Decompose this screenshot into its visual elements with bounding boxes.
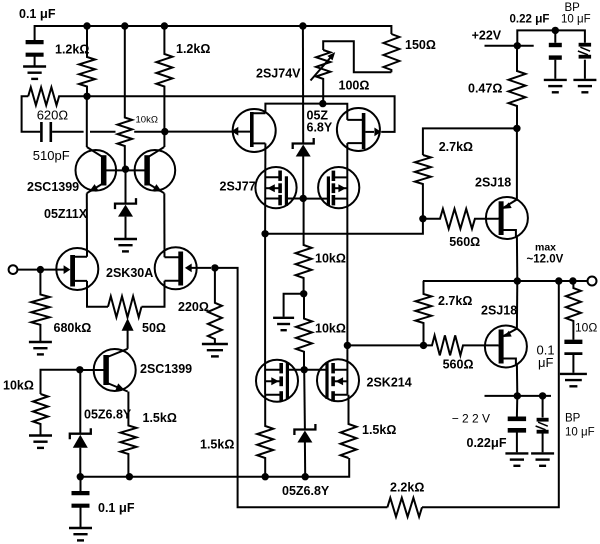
junction rail-R2 [161,22,168,29]
svg-text:10 μF: 10 μF [565,426,595,438]
wire rail to zener top [302,26,304,144]
label 2.7k upper [439,140,473,154]
junction rail-R1 [83,22,90,29]
wire zener to ground [125,217,127,238]
ground zobel [560,374,587,386]
label BP lower [565,412,581,424]
svg-text:10kΩ: 10kΩ [136,114,158,125]
svg-text:05Z11X: 05Z11X [44,207,88,221]
label 510pF [33,148,70,163]
label 05Z top line2 [307,121,333,135]
wire right emitter to JFET drain [163,193,165,257]
svg-text:1.5kΩ: 1.5kΩ [200,438,234,452]
label 2SC1399 pair [27,180,79,194]
JFET 2SJ74V right [337,108,381,151]
label 1.2k left [55,43,89,57]
label 150 [405,38,436,52]
junction divider mid [300,290,307,297]
resistor 2.7k upper [415,155,431,219]
wire collector to output [516,237,518,282]
capacitor 0.22uF top [549,45,562,58]
wire 0.22 cap to gnd [554,60,556,79]
label 2SJ18 lower [481,304,517,318]
svg-text:510pF: 510pF [33,148,70,163]
label 10k divider upper [315,252,346,266]
wire output rail [423,280,588,282]
wire 0.47 to emitter [516,128,518,199]
label 10uF lower [565,426,595,438]
svg-text:50Ω: 50Ω [142,321,166,335]
svg-text:2.7kΩ: 2.7kΩ [438,294,472,308]
label ~12.0V [527,253,564,265]
svg-text:1.2kΩ: 1.2kΩ [55,43,89,57]
svg-text:0.1 μF: 0.1 μF [98,500,135,515]
capacitor 0.22uF lower [508,419,526,431]
zener 05Z6.8Y bottom [294,424,315,443]
wire +22V to caps [517,30,585,45]
zener 05Z6.8Y left [70,428,91,448]
wire trimmer to left J74 drain [265,104,322,114]
label 2SJ77 [220,180,256,194]
wire cs collector [127,330,129,349]
svg-text:1.5kΩ: 1.5kΩ [362,423,396,437]
zener 05Z11X [115,198,136,217]
junction input node [37,266,44,273]
ground top-left [23,67,46,79]
label +22V [472,29,502,43]
svg-text:2.2kΩ: 2.2kΩ [390,481,424,495]
wire gates to zener bottom [303,370,306,430]
wire zobel gnd [572,355,574,373]
label 0.1 zobel [537,342,555,357]
label 2SJ74V [256,67,301,81]
junction left drive [261,230,268,237]
wire zener bottom to rail [304,443,306,477]
label 100 [339,79,370,93]
wire output to lower emitter [516,281,518,329]
svg-text:2SC1399: 2SC1399 [140,362,192,376]
transistor 2SJ18 upper [486,197,528,239]
svg-text:10kΩ: 10kΩ [3,379,34,393]
junction +22V [514,42,521,49]
output terminal [588,277,597,286]
resistor 10k divider upper [296,198,312,293]
resistor 50 [108,296,142,317]
wire 150 to trimmer [323,41,391,72]
svg-text:2SJ74V: 2SJ74V [256,67,301,81]
label 0.22uF top [510,11,550,25]
junction rail-1.5k mid [262,473,269,480]
resistor 10k bias [118,26,133,169]
junction rail-zener column [299,22,306,29]
ground 0.1uF bottom-left [69,528,92,540]
wire +22V stub [485,45,534,47]
label 10k bottom-left [3,379,34,393]
wire feedback [422,281,559,507]
wire base to 10k [41,370,80,394]
resistor 560 upper [423,209,499,229]
wire drive node to 2SK214 right [346,345,348,394]
resistor 680k [31,270,49,341]
svg-text:2SK30A: 2SK30A [106,266,153,280]
label -22V [452,412,490,426]
junction right gate node [211,264,218,271]
MOSFET 2SJ77 left [255,167,303,208]
transistor 2SC1399 right of pair [126,147,176,193]
resistor 1.2k right [156,26,172,132]
JFET 2SJ74V left [233,109,276,152]
JFET 2SK30A left [44,248,98,290]
label 10k divider lower [315,322,346,336]
resistor 620 [28,87,87,105]
JFET 2SK30A right [155,247,211,289]
label 1.5k mid-right [362,423,396,437]
wire 620 to 510pF [22,96,41,132]
MOSFET 2SK214 right [304,359,359,401]
label BP top [565,2,581,14]
wire input to gate [17,269,44,271]
label 2.2k [390,481,424,495]
wire 0.22 cap lead [554,30,556,42]
label 10 zobel [575,321,597,335]
svg-text:05Z6.8Y: 05Z6.8Y [282,484,330,498]
svg-text:μF: μF [538,355,553,370]
ground zener 05Z11X [114,239,137,251]
svg-text:2SJ77: 2SJ77 [220,180,256,194]
junction out-10ohm [569,277,576,284]
junction diff pair bases [122,166,129,173]
ground 10k bottom-left [29,436,52,448]
label 2SK214 [367,376,412,390]
label 10uF top [561,13,591,25]
svg-text:0.47Ω: 0.47Ω [468,82,502,96]
label max [535,242,556,254]
svg-text:2SC1399: 2SC1399 [27,180,79,194]
svg-text:150Ω: 150Ω [405,38,436,52]
svg-text:680kΩ: 680kΩ [54,321,92,335]
svg-text:BP: BP [565,412,581,424]
svg-text:10 μF: 10 μF [561,13,591,25]
label 2SC1399 cs [140,362,192,376]
ground 0.22uF top [544,80,567,92]
svg-text:− 2 2 V: − 2 2 V [452,412,490,426]
svg-text:100Ω: 100Ω [339,79,370,93]
wire 0.22 lower gnd [516,432,518,453]
svg-text:2SJ18: 2SJ18 [481,304,517,318]
wire negative sub-rail [80,458,349,477]
svg-text:0.22 μF: 0.22 μF [510,11,550,25]
label 680k [54,321,92,335]
wire left J74 source to J77 [264,143,266,233]
resistor 560 lower [424,335,499,355]
label 05Z6.8Y bottom [282,484,330,498]
transistor 2SC1399 current source [80,349,136,392]
svg-text:1.5kΩ: 1.5kΩ [143,411,177,425]
wire top rail [35,26,392,40]
wire base node to zener [79,370,81,434]
junction node A [83,93,90,100]
wire bases to zener [125,169,127,203]
wire left emitter to JFET drain [86,193,88,257]
junction node B [161,128,168,135]
label 1.2k right [176,42,210,56]
junction rail-1.5k [126,473,133,480]
wire trimmer to right J74 drain [323,104,348,120]
junction rail-zener left [77,473,84,480]
svg-text:6.8Y: 6.8Y [307,121,333,135]
wire left source [87,281,108,307]
junction out-upper [514,277,521,284]
wire right J74 source to J77 [346,143,348,345]
svg-text:560Ω: 560Ω [443,358,474,372]
arrow trimmer [311,52,336,80]
label 620 [37,107,69,122]
svg-text:10Ω: 10Ω [575,321,597,335]
svg-text:~12.0V: ~12.0V [527,253,564,265]
label 220 [178,300,209,314]
svg-text:2SK214: 2SK214 [367,376,412,390]
wire left collector [86,96,88,147]
resistor 100 trimmer [316,50,330,104]
resistor 1.2k left [79,26,95,96]
zener 05Z6.8Y top [293,138,314,157]
wire node B seg2 [90,131,116,133]
label uF zobel [538,355,553,370]
svg-text:560Ω: 560Ω [449,235,480,249]
junction caps [552,27,559,34]
resistor 2.2k feedback [387,498,422,517]
label 0.1uF bottom-left [98,500,135,515]
junction J77 gates [300,195,307,202]
label 50 [142,321,166,335]
svg-text:2SJ18: 2SJ18 [475,176,511,190]
MOSFET 2SJ77 right [303,167,359,208]
label 2SK30A [106,266,153,280]
label 05Z top line1 [307,109,329,123]
label 1.5k mid-left [200,438,234,452]
ground 680k [29,342,52,354]
label 560 lower [443,358,474,372]
label 0.1uF top-left [19,6,56,21]
wire rail to 0.1uF [80,477,82,491]
wire BP lower gnd [542,433,544,453]
resistor 10 zobel [566,281,581,340]
resistor 2.7k lower [416,281,432,345]
svg-text:620Ω: 620Ω [37,107,69,122]
label 05Z6.8Y left [84,408,132,422]
wire J77 to 2SK214 left [264,234,266,395]
capacitor 0.1uF zobel [564,342,582,354]
wire 0.1uF to ground [80,508,82,528]
ground divider [273,318,294,330]
wire node B seg1 [52,131,84,133]
wire node B to left JFET gate [165,127,250,136]
capacitor 0.1uF top-left [26,42,44,55]
svg-text:2.7kΩ: 2.7kΩ [439,140,473,154]
junction out-feedback [555,277,562,284]
resistor 220 [208,268,222,343]
wire zener to gates [302,157,304,199]
junction cs base [76,366,83,373]
svg-text:+22V: +22V [472,29,502,43]
junction rail-zener mid [302,473,309,480]
junction right drive [344,342,351,349]
wire node A to right JFET gate [87,96,395,132]
junction K214 gates [301,366,308,373]
wire feedback to gate [215,268,388,507]
junction -22V cap2 [539,392,546,399]
junction 0.47 out [513,125,520,132]
MOSFET 2SK214 left [256,360,304,402]
junction -22V cap1 [514,392,521,399]
wire 0.22 lower lead [516,396,518,417]
transistor 2SJ18 lower [485,326,527,368]
transistor 2SC1399 left of pair [76,147,126,193]
svg-text:BP: BP [565,2,581,14]
resistor 1.5k cs emitter [120,392,136,477]
wire BP lower lead [542,396,544,418]
wire lower collector [516,364,518,396]
label 10k bias [136,114,158,125]
wire -22V node [485,395,552,397]
wire drive lower [347,344,423,346]
resistor 10k bottom-left [33,394,48,435]
resistor 1.5k mid-left [257,395,273,477]
label 560 upper [449,235,480,249]
label 05Z11X [44,207,88,221]
capacitor 510pF [41,122,50,142]
wire node B seg3 [134,131,165,133]
capacitor 0.1uF bottom-left [72,493,90,506]
wire 0.47 to 2.7k [423,128,517,155]
capacitor BP 10uF lower [536,420,549,432]
resistor 10k divider lower [296,294,312,370]
label 2.7k lower [438,294,472,308]
svg-text:0.1 μF: 0.1 μF [19,6,56,21]
svg-text:10kΩ: 10kΩ [315,252,346,266]
label 0.22uF lower [467,435,507,450]
ground 0.22uF lower [505,453,528,465]
capacitor BP 10uF top [578,45,591,57]
wire drive upper [265,219,423,234]
svg-text:10kΩ: 10kΩ [315,322,346,336]
svg-text:0.22μF: 0.22μF [467,435,507,450]
input terminal [9,265,18,274]
ground BP top [573,80,596,92]
resistor 0.47 [509,46,526,129]
junction lower base node [420,342,427,349]
label 2SJ18 upper [475,176,511,190]
svg-text:220Ω: 220Ω [178,300,209,314]
wire right source [142,281,165,307]
svg-text:1.2kΩ: 1.2kΩ [176,42,210,56]
wire cap to ground [34,57,36,66]
wire BP cap to gnd [584,60,586,79]
ground 220 [202,344,228,356]
ground BP lower [531,453,554,465]
junction trimmer output [319,100,326,107]
wire zener to rail [79,448,81,477]
resistor 150 [383,34,399,72]
svg-text:max: max [535,242,556,254]
wire right collector [163,132,165,147]
arrow current source collector [122,318,134,331]
resistor 1.5k mid-right [341,395,357,458]
junction upper base node [419,215,426,222]
wire divider mid to ground [284,294,304,317]
svg-text:05Z6.8Y: 05Z6.8Y [84,408,132,422]
junction rail-R3 [121,22,128,29]
label 1.5k cs [143,411,177,425]
label 0.47 [468,82,502,96]
